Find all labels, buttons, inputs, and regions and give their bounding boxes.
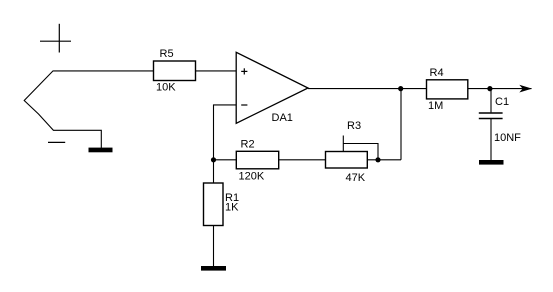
wire: R3 to feedback junction [367, 159, 401, 161]
wire: op-amp output [308, 88, 427, 90]
pin + (non-inverting input mark) [241, 68, 247, 74]
svg-text:1K: 1K [225, 202, 239, 214]
wire: C1 bottom plate to ground [490, 119, 492, 161]
wire: R1 to ground [213, 226, 215, 267]
svg-text:R4: R4 [430, 67, 444, 79]
pin - (inverting input mark) [241, 104, 247, 106]
capacitor C1 [479, 113, 503, 119]
output arrowhead [519, 85, 532, 93]
wire: R5 to op-amp + input [196, 70, 237, 72]
resistor R4 [427, 80, 468, 99]
polarity minus (-) of input source [48, 141, 65, 143]
resistor R1 [204, 183, 224, 226]
junction dot at R3 wiper tie [375, 157, 380, 162]
svg-text:DA1: DA1 [272, 112, 293, 124]
node A (junction dot) [211, 157, 216, 162]
wire: R2 to R3 [279, 159, 326, 161]
potentiometer R3 [326, 152, 368, 169]
wire: op-amp inverting input to node A [214, 105, 237, 160]
wiper arm of R3 [343, 136, 378, 160]
wire: node A to R2 [214, 159, 237, 161]
ground (below C1) [479, 160, 504, 165]
svg-text:R2: R2 [241, 139, 255, 151]
svg-text:C1: C1 [495, 96, 509, 108]
wire: source body polyline to R5 [24, 71, 153, 148]
resistor R2 [236, 151, 278, 169]
wire: feedback vertical drop [400, 89, 402, 160]
resistor R5 [154, 61, 196, 81]
svg-text:47K: 47K [346, 172, 366, 184]
wire: junction to C1 top plate [490, 89, 492, 113]
svg-text:R3: R3 [347, 120, 361, 132]
svg-text:1M: 1M [428, 100, 443, 112]
polarity cross (+) of input source [40, 24, 71, 53]
wire: node A to R1 [213, 160, 215, 183]
svg-text:R5: R5 [160, 48, 174, 60]
junction dot at output feedback tap [398, 86, 403, 91]
ground (source) [89, 148, 113, 153]
junction dot at C1 tap [487, 86, 492, 91]
wire: R4 to output arrow [468, 88, 532, 90]
svg-text:10K: 10K [156, 82, 176, 94]
op-amp DA1 [236, 52, 308, 123]
ground (below R1) [201, 266, 226, 271]
svg-text:120K: 120K [239, 171, 265, 183]
svg-text:10NF: 10NF [494, 132, 521, 144]
